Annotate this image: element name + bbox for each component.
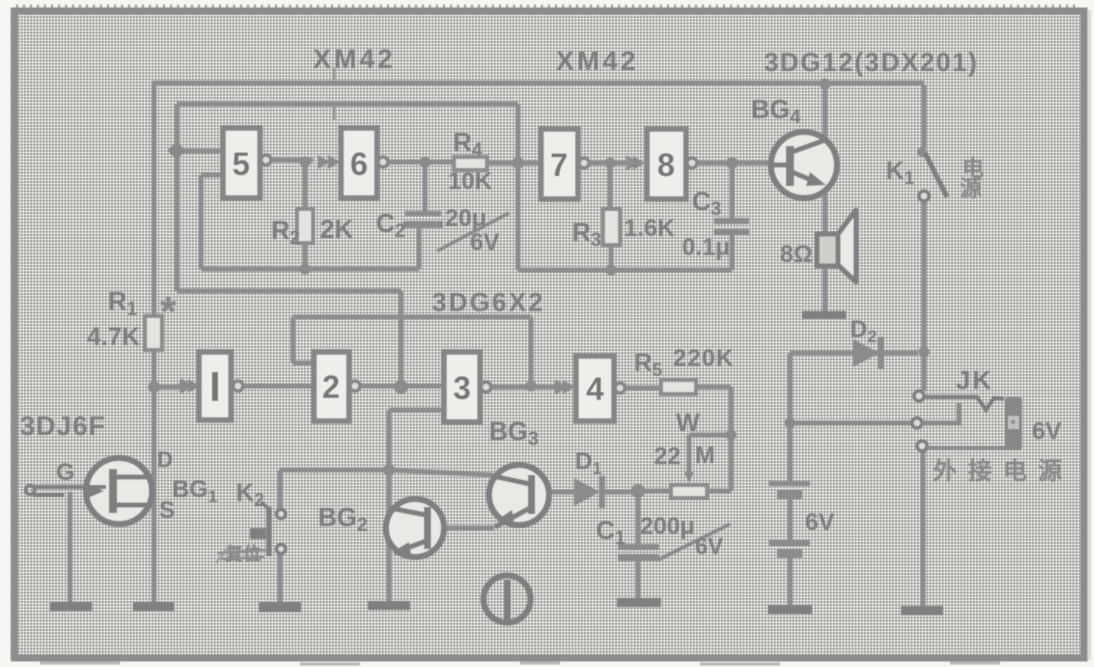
- page edge shadow right: [1088, 10, 1091, 660]
- wire R3 hang: [610, 163, 611, 271]
- svg-text:4.7K: 4.7K: [87, 323, 140, 351]
- wire battery vertical: [788, 353, 793, 606]
- ground BG2 emitter: [368, 601, 410, 610]
- svg-text:D: D: [157, 447, 173, 472]
- wire gate7 output to gate8 input: [589, 161, 631, 166]
- wire BG3 base lead to D1: [535, 490, 574, 495]
- figure number 1 in circle: [484, 576, 531, 623]
- wire K2 bottom to ground: [278, 554, 283, 603]
- wire node B vertical gate2-gate3 to lower nets: [177, 104, 518, 386]
- switch K1: [917, 147, 947, 201]
- svg-text:3DJ6F: 3DJ6F: [20, 411, 106, 441]
- capacitor C3: [714, 218, 749, 235]
- wire C3 top hang: [730, 163, 735, 220]
- ground BG1 gate: [50, 602, 92, 611]
- potentiometer W wiper arrowhead: [684, 472, 694, 483]
- gate 1: [178, 352, 243, 420]
- junction node B gate2-gate3: [394, 380, 408, 394]
- transistor BG2: [386, 499, 444, 557]
- perforation ticks on top edge: [16, 5, 1080, 8]
- wire left vertical from rail to R1: [152, 81, 157, 316]
- wire BG4 emitter to speaker and ground: [823, 189, 828, 313]
- wire feedback loop top 3DG6X2: [293, 317, 531, 386]
- wire BG2 collector-emitter vertical to ground: [387, 470, 392, 602]
- wire gate2 output to gate3 input: [361, 384, 444, 389]
- junction node C at BG2 collector: [383, 464, 395, 476]
- svg-text:220K: 220K: [673, 345, 734, 372]
- capacitor C2: [403, 211, 443, 228]
- svg-text:3DG6X2: 3DG6X2: [432, 287, 545, 317]
- svg-text:XM42: XM42: [556, 46, 639, 76]
- svg-text:2: 2: [322, 369, 340, 405]
- resistor R3: [603, 209, 620, 245]
- wire junction down to C1: [636, 491, 641, 545]
- wire D2 horizontal: [790, 351, 918, 356]
- wire gate3 output to gate4 input: [492, 385, 562, 390]
- transistor BG4: [771, 132, 837, 198]
- junction W top tap: [726, 430, 737, 441]
- wire D1 junction to W left end: [638, 489, 671, 494]
- svg-text:3DG12(3DX201): 3DG12(3DX201): [764, 47, 978, 77]
- wire gate1 output to gate2 input: [244, 384, 314, 389]
- slash C2 rating: [437, 213, 509, 251]
- svg-text:6V: 6V: [470, 229, 499, 256]
- svg-text:6: 6: [350, 146, 368, 182]
- wire node C horizontal (K2 - BG2 collector - BG3 collector): [280, 470, 493, 475]
- svg-text:0.1μ: 0.1μ: [682, 234, 730, 261]
- svg-text:8: 8: [657, 147, 675, 183]
- wire BG4 collector vertical: [823, 84, 828, 141]
- junction 3DG6X2 loop right: [526, 381, 537, 392]
- junction BG4 collector on rail: [820, 79, 831, 90]
- pointer tick under XM42: [333, 68, 336, 120]
- wire gate3 lower input: [389, 410, 444, 470]
- speaker 8 ohm: [817, 210, 856, 282]
- wire JK bottom to ground: [921, 451, 926, 606]
- ground K2: [259, 602, 301, 612]
- wire node A down through BG1 drain-source to ground: [152, 387, 157, 603]
- wire gate5 output to gate6 input: [271, 158, 313, 163]
- ground battery: [768, 605, 812, 614]
- wire node A to gate 1 input: [154, 385, 188, 390]
- svg-text:10K: 10K: [448, 168, 493, 195]
- svg-text:源: 源: [960, 176, 982, 201]
- capacitor C1: [618, 544, 659, 561]
- wire gate8 output to BG4 base: [698, 161, 772, 166]
- wire C2 top hang: [423, 162, 428, 213]
- wire battery node to JK middle: [790, 421, 912, 426]
- gate 8: [626, 129, 697, 199]
- resistor R5: [661, 380, 696, 394]
- wire gate5 lower input loop: [201, 175, 419, 269]
- scan smudges below bottom border: [40, 663, 1000, 664]
- wire R1 bottom to node A: [152, 350, 157, 389]
- junction node A below R1: [148, 381, 160, 393]
- wire BG2 base to BG3 emitter: [431, 526, 494, 531]
- svg-text:4: 4: [586, 371, 604, 407]
- diode D2: [853, 337, 884, 369]
- gate 7: [541, 129, 589, 199]
- external 6V plug: [1005, 397, 1022, 450]
- label reset (struck): [216, 543, 266, 564]
- junction R2 bottom: [300, 264, 311, 275]
- junction R3 bottom: [606, 265, 617, 276]
- junction D1-C1-W: [631, 484, 645, 498]
- wire R4 to gate7 input: [487, 161, 541, 166]
- diode D1: [574, 476, 605, 508]
- potentiometer W body: [671, 485, 707, 498]
- wire K2 branch: [278, 470, 283, 510]
- wire W top tap: [689, 433, 731, 438]
- junction D2 right on K1 line: [919, 347, 930, 358]
- junction R3 top: [605, 158, 616, 169]
- svg-text:1.6K: 1.6K: [624, 215, 675, 242]
- wire bottom of gate7-8 loop: [518, 235, 732, 270]
- ground JK bottom: [901, 606, 943, 615]
- gate 6: [318, 128, 388, 198]
- svg-text:XM42: XM42: [313, 44, 396, 74]
- wire gate5 upper input: [177, 149, 223, 154]
- svg-text:6V: 6V: [805, 509, 834, 536]
- svg-text:*: *: [160, 288, 177, 335]
- wire vertical R5 to W right end: [729, 387, 734, 491]
- wire gate4 output to R5: [626, 386, 661, 391]
- jack JK terminals: [912, 391, 1010, 451]
- transistor BG3: [489, 465, 549, 527]
- wire W right end to corner: [707, 489, 731, 494]
- svg-text:W: W: [676, 409, 700, 437]
- transistor BG1 (FET): [26, 458, 153, 602]
- junction node at gate5 input (diamond): [167, 141, 185, 159]
- gate 2: [314, 352, 360, 421]
- wire R2 hang: [303, 162, 308, 270]
- svg-text:7: 7: [550, 147, 568, 183]
- wire gate6 output to R4: [388, 160, 454, 165]
- ground C1: [617, 598, 661, 607]
- junction C3 top: [726, 157, 738, 169]
- junction C2 top: [420, 157, 431, 168]
- wire top supply rail: [154, 81, 924, 86]
- ground speaker: [802, 311, 846, 319]
- wire W wiper arrow stem: [687, 435, 692, 474]
- junction R4 right / gate7 node: [512, 157, 524, 169]
- gate 3: [444, 352, 491, 422]
- svg-text:M: M: [695, 442, 715, 469]
- gate 4: [553, 356, 625, 421]
- svg-text:2K: 2K: [320, 214, 353, 244]
- svg-text:外接电源: 外接电源: [933, 457, 1073, 485]
- junction battery top: [785, 418, 796, 429]
- svg-text:G: G: [56, 459, 75, 486]
- switch K2 (pushbutton): [250, 502, 286, 556]
- svg-text:5: 5: [232, 146, 250, 182]
- wire R5 right end to corner: [696, 385, 731, 390]
- svg-text:200μ: 200μ: [640, 513, 695, 540]
- svg-text:8Ω: 8Ω: [780, 241, 813, 268]
- junction R2 top: [300, 157, 311, 168]
- wire K1 vertical from rail: [922, 85, 927, 148]
- svg-text:6V: 6V: [695, 533, 724, 559]
- svg-text:JK: JK: [956, 365, 993, 395]
- gate 5: [223, 128, 271, 198]
- wire D1 cathode to junction C1: [605, 490, 638, 495]
- svg-text:6V: 6V: [1032, 418, 1061, 445]
- ground BG1 source: [133, 602, 174, 611]
- resistor R4: [454, 157, 487, 170]
- wire K1 bottom to D2 node and JK top: [922, 201, 927, 391]
- resistor R1: [145, 316, 162, 350]
- battery 6V (two cells): [769, 481, 810, 558]
- svg-text:3: 3: [453, 370, 471, 406]
- slash C1 rating: [658, 524, 730, 560]
- svg-text:22: 22: [654, 443, 681, 470]
- wire C1 bottom to ground: [636, 560, 641, 599]
- resistor R2: [297, 209, 313, 243]
